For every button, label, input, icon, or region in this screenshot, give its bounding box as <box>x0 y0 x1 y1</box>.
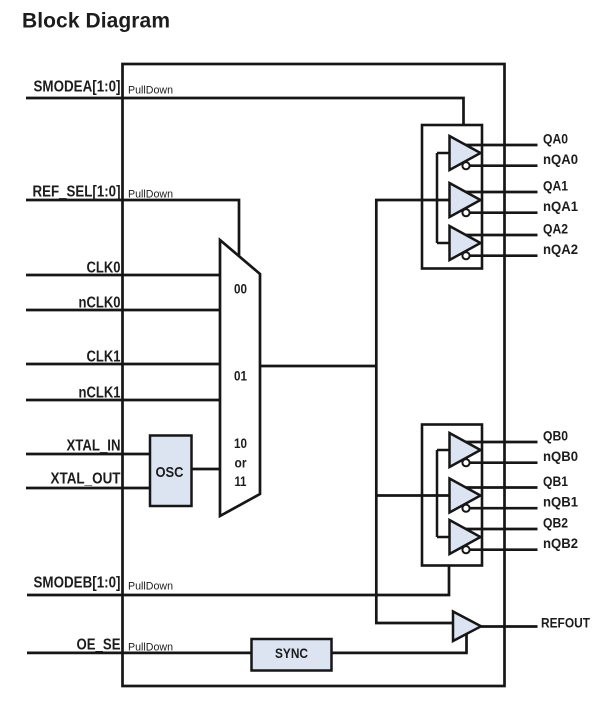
buffer REFOUT <box>453 612 481 642</box>
inverting bubble A2 <box>462 252 469 259</box>
svg-text:QA2: QA2 <box>543 221 568 237</box>
wire nCLK0 input <box>26 309 220 312</box>
svg-text:nQA0: nQA0 <box>543 151 578 167</box>
wire QA2 output <box>462 234 538 237</box>
svg-text:QA0: QA0 <box>543 131 568 147</box>
wire nQB2 output <box>464 548 538 551</box>
svg-text:CLK0: CLK0 <box>87 260 121 277</box>
buffer A1 <box>450 183 481 217</box>
wire QB0 output <box>462 441 538 444</box>
buffer A0 <box>450 136 481 170</box>
wire QA1 output <box>462 191 538 194</box>
inverting bubble B2 <box>462 546 469 553</box>
wire QA0 output <box>462 144 538 147</box>
svg-text:SMODEA[1:0]: SMODEA[1:0] <box>34 79 121 96</box>
wire REFOUT output <box>468 625 538 628</box>
buffer B1 <box>450 479 481 513</box>
output bank B box <box>422 425 482 566</box>
wire nQB1 output <box>464 507 538 510</box>
wire nCLK1 input <box>26 399 220 402</box>
wire nQA1 output <box>464 211 538 214</box>
buffer B2 <box>450 520 481 554</box>
svg-text:QB1: QB1 <box>543 473 568 489</box>
wire XTAL_OUT input <box>26 487 152 490</box>
svg-text:SYNC: SYNC <box>275 645 308 661</box>
svg-text:XTAL_OUT: XTAL_OUT <box>51 471 121 488</box>
chip outline rectangle <box>123 64 505 686</box>
wire QB2 output <box>462 528 538 531</box>
svg-text:nQB2: nQB2 <box>543 535 578 551</box>
wire QB1 output <box>462 486 538 489</box>
inverting bubble A1 <box>462 209 469 216</box>
svg-text:PullDown: PullDown <box>128 581 173 593</box>
svg-text:10: 10 <box>234 435 247 451</box>
svg-text:nCLK1: nCLK1 <box>79 385 121 402</box>
svg-text:QA1: QA1 <box>543 178 568 194</box>
wire SMODEA[1:0] input <box>26 98 464 126</box>
svg-text:nQA1: nQA1 <box>543 198 578 214</box>
wire REF_SEL[1:0] input <box>26 200 239 258</box>
svg-text:PullDown: PullDown <box>128 641 173 653</box>
wire nQA0 output <box>464 164 538 167</box>
svg-text:00: 00 <box>234 281 247 297</box>
svg-text:XTAL_IN: XTAL_IN <box>67 437 121 454</box>
sync block SYNC <box>252 639 332 671</box>
buffer A2 <box>450 226 481 260</box>
svg-text:nCLK0: nCLK0 <box>79 294 121 311</box>
svg-text:or: or <box>235 455 247 471</box>
svg-text:Block Diagram: Block Diagram <box>22 10 170 33</box>
oscillator OSC <box>150 436 192 507</box>
svg-text:11: 11 <box>235 473 247 489</box>
svg-text:nQB1: nQB1 <box>543 494 578 510</box>
wire bank B input branch <box>376 494 451 497</box>
wire nQA2 output <box>464 254 538 257</box>
svg-text:OSC: OSC <box>156 464 184 481</box>
wire bank B inner input bus <box>437 450 451 537</box>
svg-text:REFOUT: REFOUT <box>541 615 590 631</box>
inverting bubble B1 <box>462 505 469 512</box>
output bank A box <box>422 125 482 269</box>
inverting bubble A0 <box>462 162 469 169</box>
buffer B0 <box>450 433 481 467</box>
wire nQB0 output <box>464 461 538 464</box>
wire OSC output to mux <box>191 468 221 471</box>
svg-text:nQB0: nQB0 <box>543 448 578 464</box>
wire OE_SE input / sync enable <box>27 630 467 653</box>
svg-text:CLK1: CLK1 <box>87 349 121 366</box>
svg-text:nQA2: nQA2 <box>543 241 578 257</box>
svg-text:REF_SEL[1:0]: REF_SEL[1:0] <box>33 184 121 201</box>
multiplexer MUX <box>220 240 260 516</box>
wire CLK0 input <box>26 274 220 277</box>
wire SMODEB[1:0] input <box>27 566 449 595</box>
svg-text:OE_SE: OE_SE <box>77 637 121 654</box>
inverting bubble B0 <box>462 459 469 466</box>
svg-text:QB2: QB2 <box>543 515 568 531</box>
wire CLK1 input <box>26 363 220 366</box>
wire bank A inner input bus <box>437 153 451 243</box>
svg-text:QB0: QB0 <box>543 428 568 444</box>
wire main clock distribution bus <box>376 200 455 623</box>
svg-text:PullDown: PullDown <box>128 189 173 201</box>
svg-text:SMODEB[1:0]: SMODEB[1:0] <box>34 575 121 592</box>
svg-text:01: 01 <box>234 368 247 384</box>
wire XTAL_IN input <box>26 453 152 456</box>
svg-text:PullDown: PullDown <box>128 85 173 97</box>
wire REFOUT clock bus (mux output) <box>260 365 376 368</box>
